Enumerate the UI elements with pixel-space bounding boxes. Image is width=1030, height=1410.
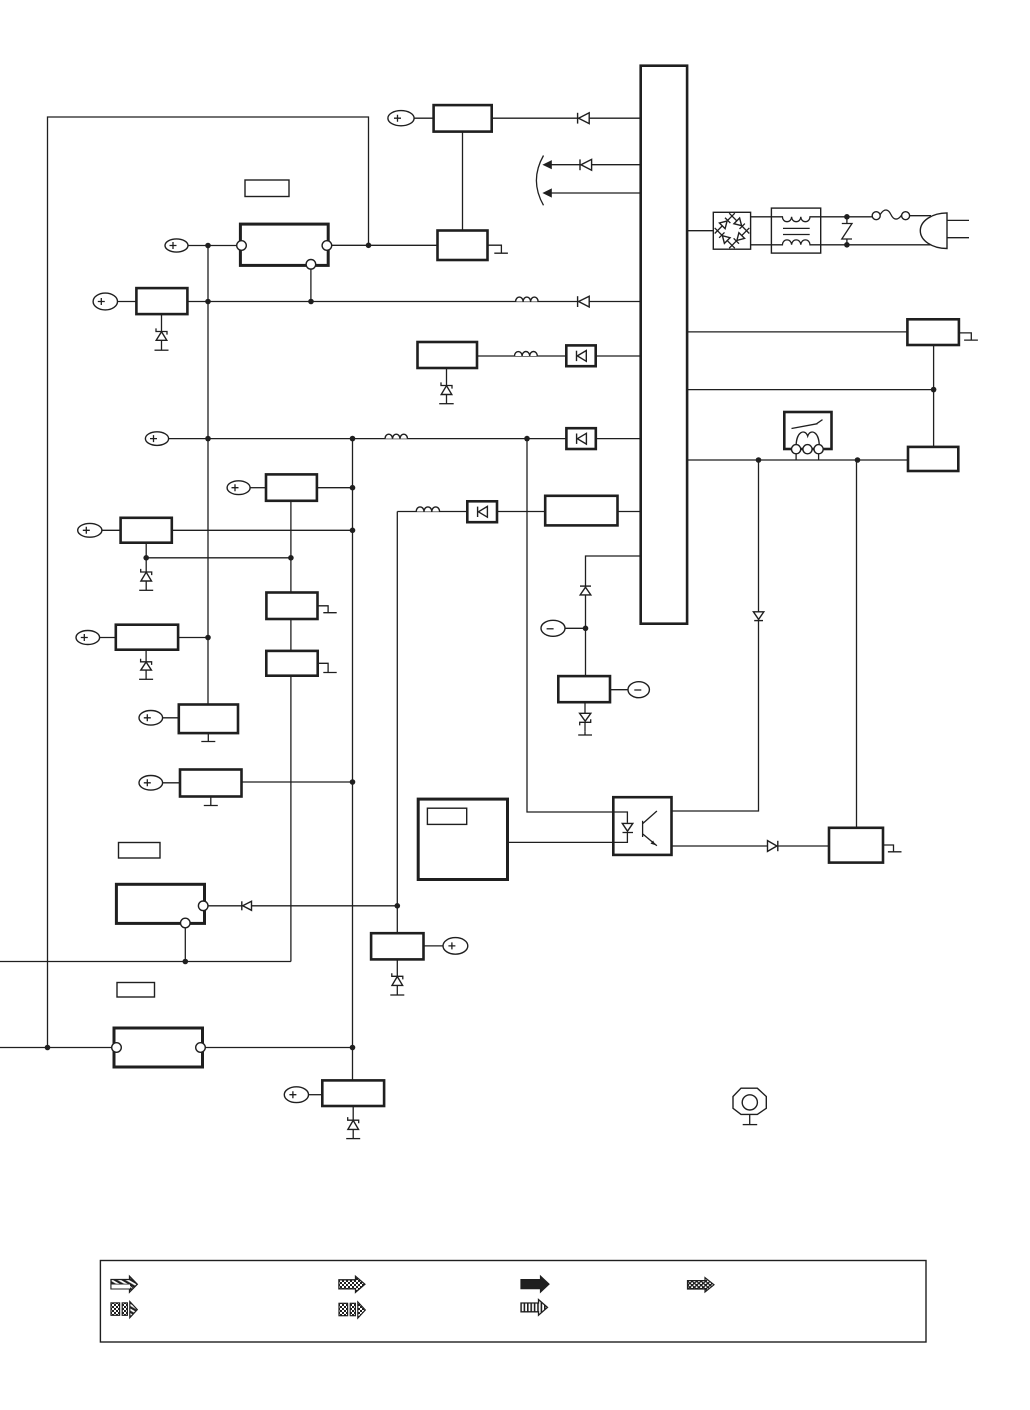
source terminal + feeding block F1 [139, 711, 179, 726]
node junction x527 y438.6 [524, 436, 530, 442]
wire vertical x758.5 from relay row down to optocoupler top right [672, 460, 759, 811]
bridge rectifier BR1 [713, 212, 750, 249]
block M (relay driver) [908, 447, 958, 471]
block D [136, 288, 187, 314]
wire vertical x397.3 from y511.5 down to block J [396, 512, 398, 934]
legend arrow A3 (solid arrow) [521, 1276, 549, 1292]
wire filter to plug bottom y244.8 [821, 244, 934, 246]
wire from node x368.5 to block B2 left [332, 244, 438, 246]
AC plug P1 [920, 213, 969, 249]
legend box [100, 1261, 926, 1343]
node junction x758.5 y460 [756, 457, 762, 463]
wire block O right to main unit [618, 511, 641, 513]
arc (deflection yoke symbol) [536, 156, 543, 206]
terminal pin right of block C [322, 241, 332, 251]
node junction x290.9 y557.8 [288, 555, 294, 561]
legend arrow B2 (segmented block arrow small) [339, 1302, 365, 1318]
diode D7 (up) on x585.5 vertical [580, 586, 591, 595]
zener diode (down) below block P [578, 702, 592, 735]
ground right of block N [959, 333, 978, 340]
zener diode below y557.8 node [139, 558, 153, 591]
varistor Z (surge absorber) [842, 217, 852, 245]
wire main unit right y460 relay row [687, 454, 908, 460]
terminal pin left of block C [237, 241, 247, 251]
block N (degauss control) [907, 319, 959, 345]
source terminal + feeding block C [165, 239, 237, 252]
source terminal + (feeds block B1 top row) [388, 111, 434, 126]
block B1 (top-right regulator) [434, 105, 492, 132]
wire top feedback loop: horizontal y117 and left vertical x47.5 [48, 117, 369, 1048]
node junction x397.3 y905.8 [395, 903, 401, 909]
node junction varistor top [844, 214, 850, 220]
wire rail y438.6 to main unit [169, 438, 641, 440]
node junction x352.5 y1047.5 [350, 1045, 356, 1051]
source terminal - right of block P [610, 682, 649, 698]
wire optocoupler emitter to block L with diode [672, 845, 829, 847]
inductor L1 on y301 wire [516, 297, 539, 301]
wire elbow y556 from x585.5 to main unit left [586, 556, 641, 676]
arrowhead on upper arc wire [542, 160, 551, 169]
node junction x352.5 y438.6 [350, 436, 356, 442]
source terminal + feeding block R [78, 523, 121, 537]
wire vertical x527 from y438.6 elbow to optocoupler [527, 439, 613, 812]
wire block B1 bottom stem to block B2 [462, 132, 464, 231]
zener diode below block D [155, 314, 169, 350]
terminal pin left of block H [112, 1043, 122, 1053]
diode D8 (down) on x758.5 vertical [753, 612, 763, 621]
zener diode below block J [390, 959, 404, 995]
block U (with ground) [266, 651, 317, 676]
lamp indicator (power LED) [733, 1088, 766, 1124]
wire block R bottom stem to y557.8 [145, 543, 147, 558]
block H (bold with terminals) [114, 1028, 203, 1067]
wire horizontal y961.5 from left edge to x290.9 [0, 961, 291, 963]
legend arrow B3 (vertical striped arrow) [521, 1300, 548, 1316]
block J [371, 933, 423, 959]
node junction x311 y301 [308, 299, 314, 305]
block T (with ground) [266, 593, 317, 620]
wire filter to plug top y216.8 [821, 216, 873, 218]
zener diode below block K [346, 1106, 360, 1139]
node junction x857.5 y460 [855, 457, 861, 463]
wire vertical x856.5 from relay row down to block L [856, 460, 858, 828]
source terminal + feeding block F2 [139, 776, 180, 791]
wire block G right terminal to x397.3 with diode [208, 905, 397, 907]
block R [121, 518, 172, 543]
wire main unit right y389.6 [687, 389, 934, 391]
wire block Q bottom vertical x290.9 down to y961.5 (through blocks T,U) [290, 501, 292, 962]
node junction x352.5 y487.7 [350, 485, 356, 491]
block C (main regulator, bold with terminals) [240, 224, 328, 265]
wire block F2 right to rail x352.5 [242, 781, 353, 783]
legend arrow A2 (checkered arrow) [339, 1276, 365, 1292]
boxed diode D5 on y438.6 wire [566, 428, 595, 449]
source terminal - at y628.3 [541, 620, 586, 636]
block Q [266, 474, 317, 500]
optocoupler U1 [613, 797, 671, 855]
block O (secondary rectifier block) [545, 496, 617, 526]
block P (negative rail block) [558, 676, 610, 702]
diode D10 on y905.8 wire [242, 901, 252, 910]
diode D9 (pointing right) on y846 wire [768, 841, 778, 852]
legend arrow A1 (hatched outline arrow) [111, 1276, 137, 1292]
ground right of block L [883, 845, 902, 852]
wire horizontal y557.8 [146, 557, 291, 559]
node junction x352.5 y782 [350, 779, 356, 785]
diode D3 on y164.7 wire [580, 159, 592, 170]
zener diode below block Y [439, 368, 454, 404]
source terminal + feeding block Q [227, 481, 266, 495]
block B2 (with ground) [438, 231, 488, 261]
big main unit block W (switching transformer unit) [641, 66, 687, 624]
inductor L4 on y511.5 wire [416, 507, 439, 512]
label box L1 (empty) [245, 180, 289, 197]
ground below block F2 [204, 797, 218, 806]
wire row y356 from block Y to main unit [477, 355, 641, 357]
node junction at x368.5 y245 [366, 243, 372, 249]
line filter FL1 [771, 208, 820, 253]
block Y (B+ filter block) [418, 342, 478, 368]
boxed diode D4 on y356 wire [566, 345, 595, 366]
node junction x208 y245.5 [205, 243, 211, 249]
source terminal + feeding block K [284, 1087, 322, 1103]
fuse F1 [872, 210, 909, 220]
legend arrow B1 (segmented block arrow) [111, 1302, 137, 1318]
inductor L3 on y438.6 wire [385, 434, 408, 438]
terminal pin right of block H [196, 1043, 206, 1053]
node junction x933.6 y389.6 [931, 387, 937, 393]
block I (main control IC, bold) [418, 799, 507, 879]
wire block Q right to rail [317, 487, 353, 489]
wire row y301 from block D to main unit [187, 301, 640, 303]
diode D2 on y301 wire [578, 296, 590, 307]
arrowhead on lower arc wire [542, 188, 551, 197]
wire arc-arrow lower y193 [551, 192, 641, 194]
label box inside block I [427, 808, 466, 824]
ground right of block T [318, 606, 337, 613]
block L (with ground) [829, 828, 883, 863]
node junction varistor bottom [844, 242, 850, 248]
node junction x352.5 y530.3 [350, 528, 356, 534]
block F1 (with ground below) [179, 705, 238, 734]
wire from block C bottom terminal down to y301 [310, 269, 312, 301]
source terminal + feeding block S [76, 631, 116, 645]
label box L2 (empty) [119, 843, 161, 859]
node junction x208 y637.5 [205, 635, 211, 641]
wires bridge to line filter [751, 216, 772, 218]
wire block R right to rail x352.5 [172, 529, 353, 531]
wire block I right to optocoupler [508, 841, 614, 843]
source terminal + on y438.6 rail [145, 432, 168, 446]
terminal pin bottom of block G [181, 918, 191, 928]
wire arc-arrow upper y164.7 with diode [551, 164, 641, 166]
zener diode below block S [139, 650, 153, 680]
ground right of block U [318, 663, 337, 672]
terminal pin right of block G [198, 901, 208, 911]
wire elbow row y511.5 from x397.3 to main unit [397, 511, 545, 513]
degauss relay RL1 [784, 412, 831, 454]
ground below block F1 [201, 733, 215, 741]
wire vertical x208 from y245 to block F1 [207, 246, 209, 705]
legend arrow A4 (dotted arrow) [688, 1278, 715, 1292]
block F2 (with ground below) [180, 770, 242, 797]
node junction x146.2 y557.8 [143, 555, 149, 561]
terminal pin bottom of block C [306, 260, 316, 270]
wire block G bottom terminal down to y961.5 [184, 928, 186, 962]
node junction x208 y301 [205, 299, 211, 305]
label box L3 (empty) [117, 983, 155, 998]
node junction x185.3 y961.5 [183, 959, 189, 965]
inductor L2 on y356 wire [515, 352, 538, 357]
wire horizontal y1047.5 from left edge to block H [0, 1047, 114, 1049]
block K [322, 1080, 384, 1106]
wire main unit right y331 to block N [687, 331, 907, 333]
source terminal + right of block J [424, 938, 468, 955]
wire main unit to bridge rectifier y230.7 [687, 230, 713, 232]
block S [116, 625, 178, 650]
boxed diode D6 on y511.5 wire [467, 501, 497, 522]
node junction x208 y438.6 [205, 436, 211, 442]
wire block H right to rail x352.5 [205, 1047, 352, 1049]
block G (bold with terminals) [116, 884, 204, 923]
wire block S right to x208 [178, 637, 208, 639]
source terminal + feeding block D [93, 293, 136, 310]
wire vertical rail x352.5 [352, 439, 354, 1081]
node junction x585.5 y628.3 [583, 626, 589, 632]
diode D1 on y118 wire [578, 113, 590, 124]
node junction x47.5 y1047.5 [45, 1045, 51, 1051]
wire block N bottom to node y389.6 [933, 345, 935, 447]
ground right of block B2 [488, 245, 508, 253]
wire block B1 to main unit with diode [492, 117, 641, 119]
